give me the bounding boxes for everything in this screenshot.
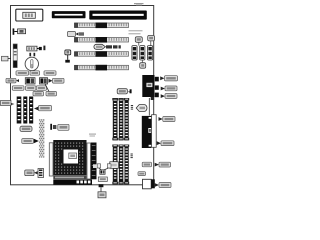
tiny text block below slot 1 right: [129, 30, 143, 34]
tiny marks right of SIMM bottom: [131, 154, 133, 159]
right edge connector stack: [142, 75, 159, 100]
right vertical connector 1: [132, 46, 137, 60]
white label over SIMM bottom left: [110, 162, 119, 169]
vertical wire to power connector: [148, 98, 150, 116]
small label under: [138, 172, 146, 176]
label inside bottom right: [142, 162, 151, 167]
CPU left bar: [49, 143, 53, 176]
label row A2: [30, 71, 40, 75]
DIN striped column 2: [23, 97, 27, 124]
label row A1: [16, 71, 29, 75]
right callout R4: [159, 117, 176, 122]
oval callout near SIMM top right: [136, 105, 147, 112]
ISA slot 2: [75, 37, 129, 43]
left callout label L1: [2, 56, 12, 61]
SIMM socket bank1 col1: [112, 98, 118, 140]
tiny header left of jumper: [97, 164, 100, 168]
column callout right: [34, 106, 52, 111]
right callout R3: [161, 94, 177, 99]
label row A3: [44, 71, 56, 75]
DIN striped column 1: [17, 97, 22, 124]
J2 callout: [68, 32, 85, 37]
label row D1: [33, 92, 44, 96]
black chip next to CPU: [91, 143, 97, 180]
label below connector 2: [140, 60, 146, 68]
bottom label box: [98, 177, 107, 181]
SIMM socket bank2 col1: [112, 145, 118, 185]
SIMM socket bank1 col3: [124, 98, 129, 140]
arrow + label B4: [49, 78, 65, 83]
battery legs: [29, 53, 31, 57]
label row B1: [6, 78, 19, 83]
wire to D2: [45, 84, 49, 92]
battery circle: [25, 57, 38, 70]
ISA slot 4: [75, 65, 129, 71]
CPU gray text strip: [53, 176, 86, 179]
jumper block B3: [40, 78, 48, 84]
right callout R7: [155, 183, 171, 188]
white bar right of CPU: [87, 143, 91, 179]
label row C3: [36, 86, 46, 91]
right vertical connector 2: [140, 46, 145, 60]
label row D2: [46, 92, 57, 96]
printer port bar 2: [89, 11, 147, 20]
right callout R6: [155, 162, 171, 167]
right callout R2: [161, 86, 177, 91]
label row C2: [26, 86, 37, 91]
revision oval + text: [94, 44, 121, 49]
tiny header right of jumper: [107, 164, 111, 168]
right callout R1: [160, 76, 177, 81]
ISA slot 1: [75, 23, 129, 29]
power connector black block: [142, 116, 152, 148]
SIMM callout box: [117, 89, 131, 94]
bottom edge bar + below-board label: [98, 184, 106, 198]
dotted block: [39, 119, 45, 158]
chip white mark: [93, 164, 97, 168]
chip text above: [89, 134, 96, 137]
board outline: [11, 6, 154, 185]
label row C1: [12, 86, 24, 91]
part number text top right: [134, 3, 144, 5]
label under striped columns: [20, 126, 32, 131]
right callout R5: [157, 141, 174, 146]
label above connector 1/2: [135, 37, 142, 46]
keyboard connector J1: [16, 9, 43, 21]
CPU socket: [53, 140, 88, 176]
power LED connector icon: [13, 28, 26, 34]
bottom jumper block: [100, 170, 105, 175]
jumper block B2: [25, 78, 35, 84]
DIN striped column 3: [29, 97, 33, 124]
ISA slot 3: [75, 51, 129, 57]
tall connector left edge: [13, 44, 17, 68]
left callout label L2: [1, 101, 15, 106]
white connector beside power block: [152, 115, 157, 148]
printer port bar 1: [52, 11, 86, 18]
corner white connector: [143, 179, 155, 189]
converging wires: [99, 168, 102, 170]
SIMM socket bank1 col2: [118, 98, 123, 140]
dotted block callout: [22, 139, 39, 144]
label above connector 3: [148, 35, 155, 45]
bottom-left connector icon: [25, 169, 44, 178]
jumper + label mid-left: [50, 124, 69, 131]
CPU label bar: [53, 180, 92, 185]
right vertical connector 3: [148, 46, 153, 60]
tiny vertical text right of SIMM top: [131, 105, 133, 110]
SIMM socket bank2 col3: [124, 145, 129, 185]
SIMM socket bank2 col2: [118, 145, 123, 185]
striped header + tail: [27, 46, 46, 51]
jumper P with stem: [65, 50, 71, 63]
